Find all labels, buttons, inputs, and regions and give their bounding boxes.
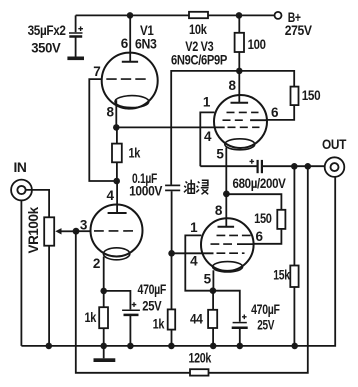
terminal IN	[11, 160, 32, 200]
resistor 1k (V1 cathode)	[116, 127, 118, 143]
resistor 120k feedback	[190, 369, 209, 375]
tube V2 envelope	[214, 95, 267, 148]
label oil-immersed (drawn glyphs)	[184, 180, 209, 195]
node bus/pot	[46, 343, 53, 350]
svg-text:7: 7	[93, 64, 100, 79]
V1 lower anode bar	[108, 212, 127, 214]
resistor 150 (V3 g2)	[277, 210, 285, 229]
svg-text:35µFx2: 35µFx2	[28, 23, 66, 38]
svg-text:8: 8	[228, 78, 236, 93]
wire V2 anode lead (pin 8)	[238, 71, 240, 103]
wire output to OUT	[263, 165, 325, 167]
wire pin 7 (V1 grid to lower anode node)	[89, 79, 116, 181]
svg-text:10k: 10k	[189, 22, 207, 37]
svg-text:1000V: 1000V	[129, 183, 162, 198]
node pin2 / 1k / 470uF	[100, 288, 107, 295]
V1 lower cathode	[103, 248, 129, 260]
svg-text:6: 6	[271, 105, 279, 120]
wire V1 output to V2 grid	[116, 126, 224, 128]
V2 g2 row (dashed) + pin 6	[223, 119, 247, 121]
node wiper / grid / feedback	[73, 228, 80, 235]
V2 g1 row (dashed), pin 4	[228, 126, 260, 128]
terminal B+	[275, 12, 282, 19]
svg-text:100: 100	[248, 37, 266, 52]
svg-text:4: 4	[190, 253, 198, 268]
V1 anode bar	[122, 61, 138, 63]
svg-text:15k: 15k	[273, 267, 290, 282]
V1 grid (dashed)	[106, 78, 147, 80]
V3 g3 row (dashed) + pin 1 wire	[217, 234, 252, 236]
node 1k bottom / pin7 / lower anode	[113, 178, 120, 185]
svg-text:120k: 120k	[189, 351, 212, 366]
capacitor 470uF 25V (V3 cathode bypass)	[213, 291, 280, 346]
svg-text:350V: 350V	[31, 41, 60, 56]
svg-text:44: 44	[190, 312, 203, 327]
svg-text:6: 6	[121, 36, 129, 51]
svg-text:OUT: OUT	[322, 137, 347, 152]
wire IN sleeve to ground bus	[20, 200, 22, 346]
wire feedback vertical from output	[209, 166, 308, 372]
resistor 44 (V3 cathode)	[212, 291, 214, 310]
V3 g1 row (dashed), pin 4 wire from coupling cap	[217, 252, 245, 254]
V3 g2 row (dashed) + pin 6	[211, 243, 234, 245]
node V2 anode	[236, 68, 243, 75]
svg-text:470µF: 470µF	[251, 302, 280, 317]
node output/feedback	[305, 163, 312, 170]
wire V1 lower anode lead (pin 4)	[116, 181, 118, 213]
svg-text:4: 4	[204, 129, 212, 144]
wire output node horizontal	[200, 165, 257, 167]
V2 anode bar	[231, 102, 249, 104]
node bus/470uF left	[127, 343, 134, 350]
capacitor 0.1uF 1000V oil coupling	[129, 171, 180, 253]
wire wiper to V1 lower grid (pin 3)	[76, 230, 91, 232]
svg-text:5: 5	[204, 271, 212, 286]
svg-text:6N9C/6P9P: 6N9C/6P9P	[171, 53, 227, 68]
resistor R 10k	[189, 12, 208, 18]
node V3 cathode junction	[210, 287, 217, 294]
wire V1 plate lead (pin 6)	[129, 15, 131, 61]
tube V3 envelope	[201, 218, 254, 271]
capacitor 35uFx2 350V	[28, 15, 83, 56]
node bus/1k left	[100, 343, 107, 350]
node coupling cap / V3 g1	[168, 250, 175, 257]
svg-text:275V: 275V	[285, 23, 312, 38]
node bus/15k	[291, 343, 298, 350]
V2 cathode	[225, 139, 255, 150]
wire pin 2 (lower cathode)	[103, 257, 105, 291]
V1 lower grid (dashed)	[94, 230, 137, 232]
tube V1 lower envelope	[91, 205, 143, 257]
svg-text:1: 1	[203, 95, 211, 110]
svg-text:2: 2	[93, 256, 100, 271]
wire V3 pin 5	[212, 270, 214, 290]
wire midpoint right to 150	[226, 194, 281, 210]
node bus/44	[210, 343, 217, 350]
capacitor 470uF 25V (V1 cathode bypass)	[104, 282, 166, 346]
svg-text:100k: 100k	[26, 206, 41, 235]
wire feedback to input node	[76, 231, 190, 373]
wire anode node left to coupling cap	[171, 71, 239, 185]
resistor 15k	[293, 166, 295, 265]
wire top rail right segment	[208, 14, 275, 16]
potentiometer VR 100k	[26, 206, 76, 346]
resistor 1k (V3 grid leak)	[171, 253, 173, 309]
svg-text:8: 8	[106, 104, 114, 119]
svg-text:6: 6	[255, 229, 263, 244]
wire V3 anode lead (pin 8)	[225, 194, 227, 227]
capacitor 680u/200V	[233, 159, 286, 191]
svg-text:VR: VR	[26, 235, 41, 254]
svg-text:1k: 1k	[153, 316, 165, 331]
ground (35uF cap)	[67, 57, 84, 61]
svg-text:1k: 1k	[129, 145, 141, 160]
resistor 1k (V1 lower cathode)	[103, 291, 105, 307]
svg-text:680µ/200V: 680µ/200V	[233, 176, 286, 191]
resistor 150 (V2 g2)	[291, 87, 299, 106]
wire anode node right	[239, 71, 294, 87]
svg-text:25V: 25V	[257, 318, 274, 333]
svg-text:1: 1	[190, 220, 198, 235]
node bus/1k center	[168, 343, 175, 350]
V3 anode bar	[218, 226, 235, 228]
node V1 cathode	[113, 124, 120, 131]
wire pin 8 (V1 cathode)	[115, 100, 117, 127]
node top rail / V1 plate	[127, 12, 134, 19]
resistor 100 (V2 anode feed)	[238, 15, 240, 32]
V1 cathode	[115, 96, 149, 108]
svg-text:IN: IN	[14, 160, 27, 175]
node midpoint V2 cathode / V3 anode	[223, 191, 230, 198]
svg-text:3: 3	[80, 217, 88, 232]
svg-text:25V: 25V	[142, 299, 161, 314]
svg-text:150: 150	[302, 88, 321, 103]
svg-text:1k: 1k	[84, 310, 96, 325]
svg-text:8: 8	[215, 203, 223, 218]
svg-text:150: 150	[254, 211, 272, 226]
node output/15k	[291, 163, 298, 170]
terminal OUT	[322, 137, 347, 177]
V2 g3 row (dashed) + pin 1 wire	[227, 111, 259, 113]
wire top rail left segment	[76, 14, 189, 16]
wire IN to pot	[26, 190, 49, 217]
ground (main)	[103, 346, 105, 358]
wire ground bus	[21, 177, 335, 346]
svg-text:4: 4	[106, 188, 114, 203]
svg-text:470µF: 470µF	[138, 282, 167, 297]
svg-text:5: 5	[216, 146, 224, 161]
node bus/470uF right	[237, 343, 244, 350]
wire V2 pin 5 (cathode down)	[225, 148, 227, 194]
svg-text:6N3: 6N3	[135, 36, 157, 51]
tube V1 upper envelope	[102, 53, 158, 109]
V3 cathode	[213, 262, 243, 272]
svg-text:V2 V3: V2 V3	[185, 39, 214, 54]
node top rail / 100 ohm	[236, 12, 243, 19]
